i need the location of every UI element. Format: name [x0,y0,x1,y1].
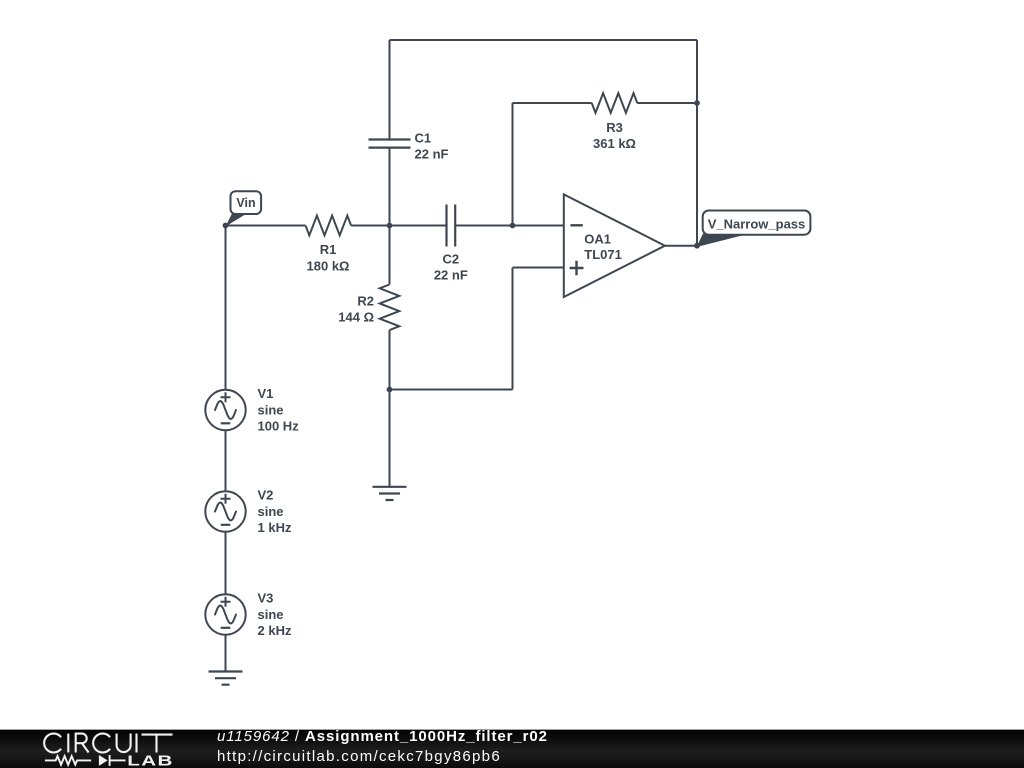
svg-text:V_Narrow_pass: V_Narrow_pass [708,217,806,232]
svg-text:V3: V3 [258,591,274,606]
svg-text:1 kHz: 1 kHz [258,520,292,535]
svg-text:LAB: LAB [127,753,174,768]
svg-text:OA1: OA1 [584,231,611,246]
svg-text:22 nF: 22 nF [434,268,468,283]
svg-text:C1: C1 [415,130,432,145]
svg-text:V1: V1 [258,386,274,401]
svg-text:180 kΩ: 180 kΩ [307,259,350,274]
svg-text:144 Ω: 144 Ω [338,310,374,325]
svg-text:100 Hz: 100 Hz [258,419,300,434]
svg-text:22 nF: 22 nF [415,146,449,161]
svg-text:V2: V2 [258,488,274,503]
svg-text:361 kΩ: 361 kΩ [593,136,636,151]
svg-text:TL071: TL071 [584,247,622,262]
svg-text:sine: sine [258,607,284,622]
svg-text:C2: C2 [442,252,459,267]
svg-text:sine: sine [258,403,284,418]
svg-text:2 kHz: 2 kHz [258,623,292,638]
svg-text:R2: R2 [357,294,374,309]
svg-text:R1: R1 [320,242,337,257]
svg-text:R3: R3 [606,120,623,135]
svg-text:Vin: Vin [236,196,255,210]
svg-text:sine: sine [258,504,284,519]
